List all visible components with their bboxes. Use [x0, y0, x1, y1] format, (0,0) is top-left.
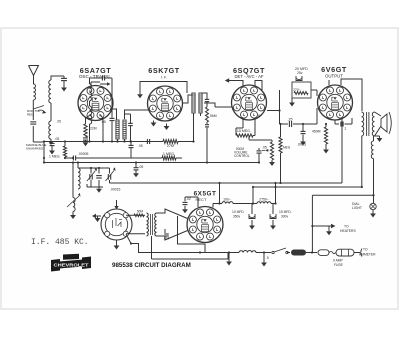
tube V4 6V6GT output: [318, 85, 353, 120]
ground below vibrator: [116, 240, 118, 244]
capacitor .0025: [302, 124, 304, 131]
IFT2 secondary winding: [199, 93, 202, 113]
capacitor 15MFD electrolytic: [272, 204, 274, 215]
svg-text:I. F.: I. F.: [161, 76, 167, 80]
wire tube1 cathode to bus A: [100, 115, 103, 142]
wire tube4 top left: [328, 80, 330, 85]
suppressor dark capsule: [291, 250, 306, 256]
antenna coil: [33, 84, 35, 100]
ground under tube2: [166, 124, 168, 127]
wire antenna to bus: [33, 142, 44, 158]
IFT2 primary winding: [192, 93, 195, 113]
resistor 1 MEG grid vertical: [279, 137, 282, 153]
bus line C avc: [44, 162, 259, 164]
svg-text:300v: 300v: [281, 215, 289, 219]
coil secondary upper: [90, 84, 92, 101]
output transformer secondary: [372, 112, 374, 136]
wire IFT2 bottoms: [193, 113, 195, 142]
fuse holder small: [318, 250, 329, 256]
variable capacitor osc section: [109, 168, 111, 174]
wire transformer center tap down: [151, 236, 153, 259]
svg-text:350v: 350v: [233, 215, 241, 219]
capacitor .05 mid: [110, 117, 115, 119]
trim arrow osc: [67, 196, 79, 207]
arrow into vibrator top: [116, 200, 118, 209]
transformer core: [366, 112, 368, 136]
svg-text:.0025: .0025: [297, 143, 306, 147]
svg-text:TO: TO: [344, 225, 349, 229]
svg-text:RECT: RECT: [196, 197, 207, 202]
resistor 2750 ohm: [257, 202, 271, 204]
svg-text:450M: 450M: [312, 130, 321, 134]
svg-text:15 MEG.: 15 MEG.: [237, 129, 251, 133]
capacitor .00005 bus B: [72, 156, 74, 161]
capacitor .1: [335, 123, 339, 125]
switch arm antenna: [33, 106, 44, 110]
capacitor .004: [164, 229, 166, 233]
ignition switch: [272, 251, 274, 253]
primary return line y187: [253, 186, 362, 188]
svg-text:.05: .05: [139, 165, 144, 169]
variable capacitor tuning: [90, 168, 92, 174]
wire coil top to cap: [90, 78, 104, 84]
wire secondary top to 6X5 plate: [157, 209, 188, 219]
resistor 1 MEG right: [162, 156, 176, 160]
coil primary lower: [49, 121, 51, 139]
capacitor .05 det: [258, 148, 260, 150]
svg-text:.05: .05: [55, 137, 60, 141]
svg-text:15 MFD.: 15 MFD.: [279, 210, 292, 214]
resistor 27M: [163, 140, 178, 144]
svg-text:25v: 25v: [297, 71, 303, 75]
svg-text:10 MFD: 10 MFD: [232, 210, 244, 214]
osc cap return line: [87, 186, 103, 188]
capacitor .02 with ground: [183, 201, 188, 203]
wire top hook: [51, 76, 64, 80]
capacitor padder: [98, 168, 100, 174]
svg-text:HEATERS: HEATERS: [340, 229, 357, 233]
wire vibrator to transformer bottom: [126, 233, 145, 235]
svg-text:LIGHT: LIGHT: [352, 206, 362, 210]
capacitor 10MFD electrolytic: [251, 204, 253, 215]
svg-text:50M: 50M: [137, 210, 144, 214]
ground 10MFD: [251, 220, 253, 224]
svg-text:TO: TO: [363, 248, 368, 252]
capacitor .05 line C to ground: [135, 163, 137, 168]
svg-text:56M: 56M: [210, 114, 217, 118]
svg-text:.25: .25: [288, 118, 293, 122]
capacitor .05 on bus A left: [50, 142, 55, 144]
svg-text:AMMETER: AMMETER: [359, 253, 376, 257]
svg-text:22M: 22M: [90, 127, 97, 131]
antenna: [29, 66, 39, 76]
wire osc coil to avc bus: [77, 163, 79, 169]
wire field coil down to dial light: [373, 159, 375, 204]
resistor 15 MEG: [236, 127, 243, 129]
buffer line bottom: [152, 253, 229, 260]
svg-text:6SK7GT: 6SK7GT: [148, 66, 180, 75]
svg-text:.004: .004: [163, 237, 170, 241]
power transformer primary: [147, 213, 149, 236]
svg-text:1 MEG.: 1 MEG.: [49, 155, 61, 159]
coupling wire y124: [280, 123, 288, 125]
wire arrow ground left: [93, 215, 101, 217]
capacitor .05 on bus A: [146, 139, 148, 144]
wire IFT2 to tube3: [204, 103, 215, 107]
wire up to tube4 grid: [316, 108, 318, 124]
bus line A 27M: [44, 141, 163, 143]
coil secondary lower: [90, 106, 92, 124]
box outline bias: [292, 82, 311, 98]
wire tube4 plate down long: [341, 119, 343, 183]
ground left vibrator: [97, 216, 99, 218]
output transformer primary: [362, 112, 364, 136]
resistor 100 ohm wirewound: [222, 202, 233, 204]
IFT2 capacitor right: [201, 93, 208, 99]
speaker horn: [381, 114, 387, 132]
resistor 1 MEG left vertical: [63, 146, 66, 157]
chevrolet logo bowtie: [51, 259, 60, 272]
riser 10MFD node: [252, 187, 254, 204]
resistor 56M vertical: [206, 107, 209, 122]
resistor 450M vertical: [324, 127, 327, 144]
vertical junction to B+ line: [219, 183, 221, 204]
svg-text:.1: .1: [344, 127, 347, 131]
osc top line: [78, 167, 110, 169]
wire to volume control: [248, 136, 250, 141]
wire 6X5 cathode up: [212, 204, 214, 208]
wires IFT1 bottoms: [117, 139, 119, 142]
ground 450M: [325, 144, 327, 148]
svg-text:CHEVROLET: CHEVROLET: [54, 262, 89, 267]
bus line B 1meg: [65, 157, 73, 159]
osc coil lower: [72, 163, 74, 198]
ground 15MFD: [272, 220, 274, 224]
dial light feed line: [312, 194, 373, 196]
capacitor .25: [288, 121, 290, 127]
tube V1 6SA7GT osc-transl: [78, 86, 113, 121]
vibrator unit: [101, 209, 132, 240]
coil primary upper: [49, 80, 51, 103]
svg-text:CONTROL: CONTROL: [234, 154, 250, 158]
field coil: [373, 136, 375, 141]
ground antenna coil: [50, 139, 52, 141]
svg-text:I.F. 485 KC.: I.F. 485 KC.: [31, 238, 89, 247]
svg-text:770~: 770~: [293, 88, 301, 92]
wire tube4 cathode down: [334, 120, 336, 124]
ground transformer secondary: [375, 135, 380, 137]
capacitor .05 top: [101, 76, 103, 81]
svg-text:2750~: 2750~: [259, 198, 269, 202]
capacitor .05 on line C: [129, 144, 134, 146]
wire: [89, 101, 91, 106]
ground under 22M: [85, 140, 87, 142]
wire tube3 cathode down: [242, 118, 244, 128]
junction: [192, 140, 194, 142]
wire IFT1 secondary top: [125, 114, 131, 119]
battery line: [126, 234, 239, 253]
junction ground 2 with .5: [263, 251, 265, 253]
power transformer secondary: [154, 213, 156, 236]
wire IFT1 top to tube2: [125, 110, 149, 114]
svg-text:1 MEG.: 1 MEG.: [163, 152, 175, 156]
B+ line to output stage: [110, 182, 343, 184]
wire .1 cap to transformer: [351, 118, 353, 124]
svg-text:27M: 27M: [167, 144, 174, 148]
fuse 9 amp: [336, 249, 354, 256]
capacitor 20MFD: [296, 76, 302, 81]
resistor 22M vertical: [86, 115, 92, 125]
transformer core lines: [150, 214, 152, 235]
tube V5 6X5GT rectifier: [187, 207, 223, 243]
ground osc coil: [72, 212, 74, 215]
svg-text:.05: .05: [262, 146, 267, 150]
svg-text:100~: 100~: [223, 198, 231, 202]
capacitor to ground left: [61, 77, 67, 79]
wire: [50, 103, 52, 121]
ground osc caps: [98, 187, 100, 189]
IFT1 secondary winding: [123, 120, 126, 139]
vertical 2750 to B+ line: [275, 183, 277, 204]
wire cathode return box: [178, 216, 206, 253]
arrow at tube1 top: [100, 83, 108, 85]
wire cap down: [111, 78, 113, 118]
ground heater line: [328, 226, 330, 231]
wire vibrator to transformer top: [126, 214, 145, 216]
wire secondary bottom to 6X5 plate: [157, 231, 188, 241]
IFT1 primary winding: [116, 120, 119, 139]
svg-text:UNMARKED: UNMARKED: [26, 147, 44, 151]
ground volume control: [271, 160, 273, 162]
vertical battery feed down: [311, 195, 313, 252]
wire primary bottom down: [361, 136, 363, 187]
wire tube4 top to output transformer: [341, 79, 362, 111]
arrow to heaters: [312, 225, 331, 227]
ground: [63, 84, 65, 88]
wire top bus tube1-tube2: [90, 82, 92, 87]
svg-text:.02: .02: [186, 197, 191, 201]
choke coil A lead: [239, 250, 256, 252]
spark plate ground 1: [228, 253, 230, 262]
svg-text:FUSE: FUSE: [334, 263, 344, 267]
wire tube3 top to arrow: [227, 81, 243, 88]
svg-text:.05: .05: [57, 120, 62, 124]
dial light lamp: [370, 203, 376, 209]
svg-text:.05: .05: [138, 144, 143, 148]
ground dial light: [372, 210, 374, 212]
wire box to tube4: [311, 89, 317, 91]
svg-text:RED: RED: [27, 113, 34, 117]
plate load riser: [279, 90, 281, 124]
wire to ammeter: [354, 252, 360, 254]
capacitor under 22M: [83, 137, 88, 139]
svg-text:.5: .5: [266, 256, 269, 260]
resistor 50M: [134, 214, 144, 217]
wire tube1 to IFT1: [110, 109, 117, 120]
squiggle: [330, 251, 336, 254]
svg-text:MEG: MEG: [283, 146, 291, 150]
B plus filter line: [213, 203, 222, 205]
ground under tube2 left: [153, 121, 155, 123]
svg-text:.05: .05: [256, 114, 261, 118]
osc coil upper: [78, 168, 80, 189]
ground bias box: [291, 98, 293, 101]
wire tube3 plate right: [267, 110, 280, 112]
vertical bus join left: [43, 142, 45, 163]
ground top of tube2: [139, 93, 141, 94]
IFT1 capacitor: [130, 114, 132, 123]
svg-text:.00005: .00005: [78, 152, 88, 156]
resistor 770 ohm: [294, 92, 308, 95]
wire to bus A: [89, 124, 91, 142]
tube V3 6SQ7GT det-avc-af: [232, 85, 267, 120]
wire tube2 to IFT2: [183, 95, 194, 103]
capacitor antenna series: [30, 121, 36, 123]
wire tube3 top right: [255, 81, 262, 91]
wire 56M to avc bus: [206, 122, 208, 124]
volume control 500M: [249, 139, 272, 141]
wire transformer secondary to horn: [375, 112, 382, 116]
svg-text:OUTPUT: OUTPUT: [325, 73, 343, 78]
svg-text:.00015: .00015: [110, 188, 120, 192]
svg-text:985538 CIRCUIT DIAGRAM: 985538 CIRCUIT DIAGRAM: [112, 262, 191, 269]
svg-text:DET - AVC - AF: DET - AVC - AF: [235, 74, 264, 79]
tube V2 6SK7GT i.f.: [148, 86, 183, 121]
wire grid cap over tube2: [140, 82, 187, 94]
